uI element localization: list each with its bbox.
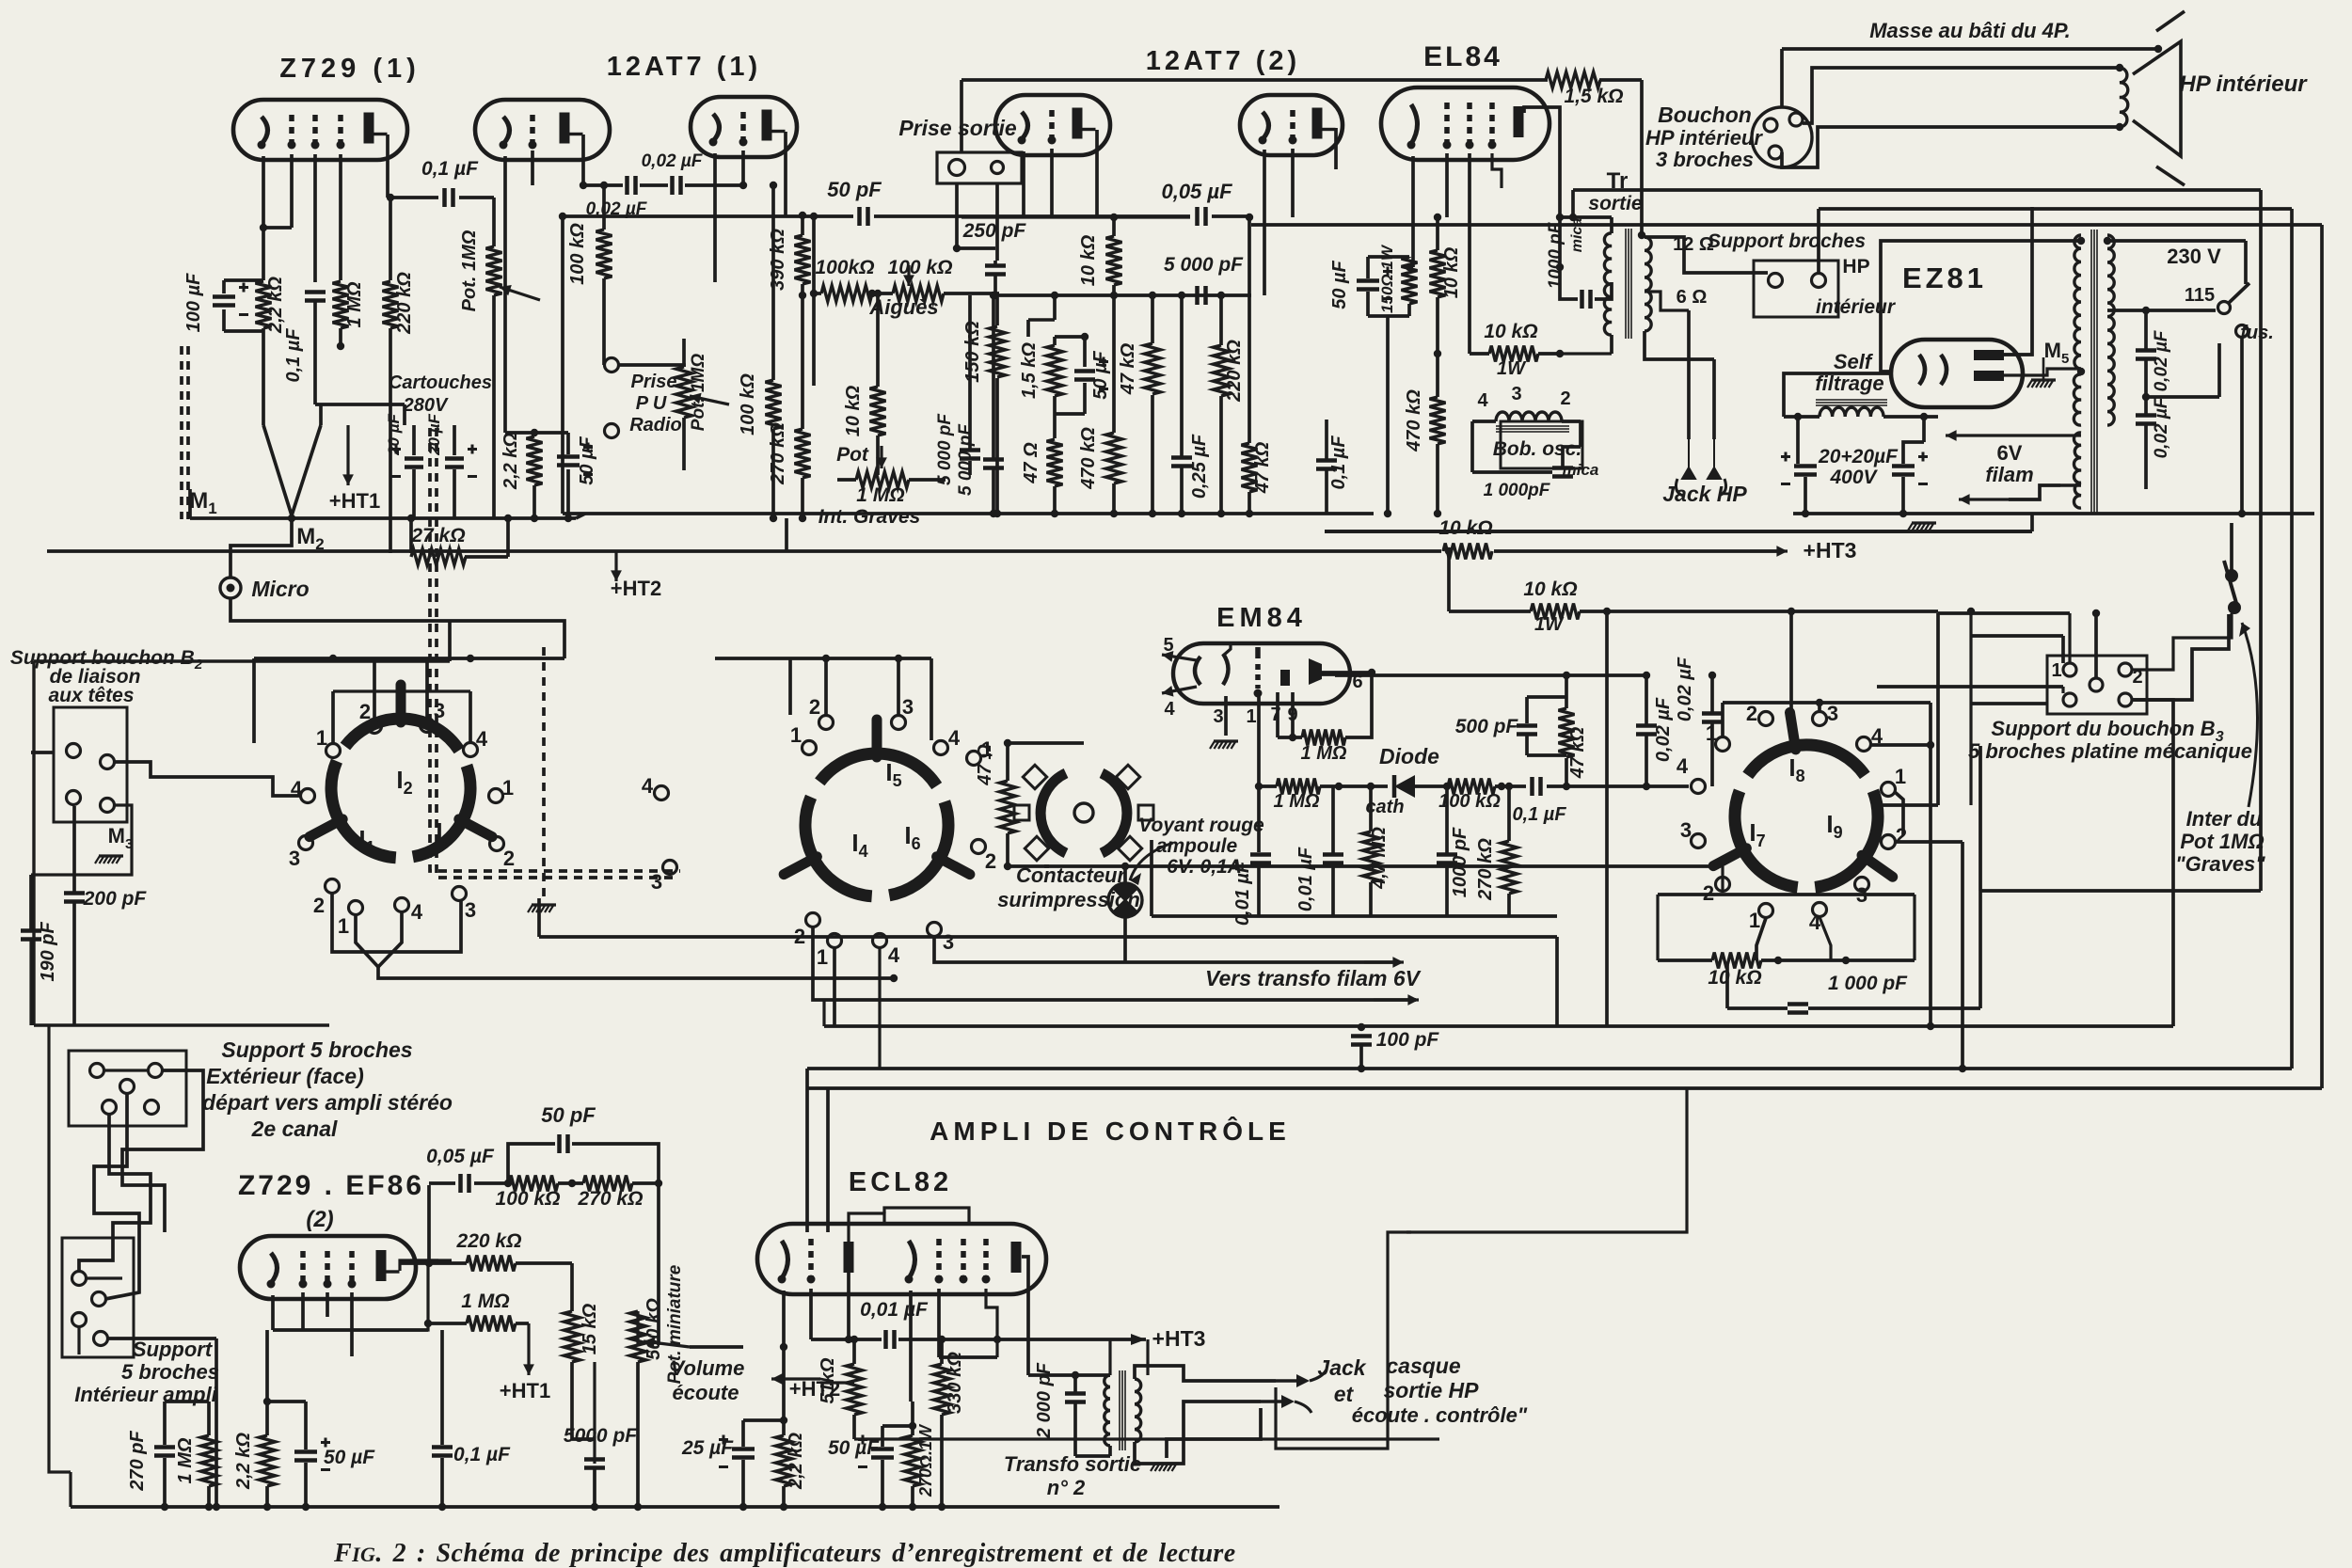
arrow bundle b (1374, 994, 1419, 1006)
wire (1278, 736, 1302, 739)
label Cartouches (389, 372, 492, 393)
label 0.01uF ecl (860, 1299, 929, 1321)
wire (882, 1424, 913, 1428)
wire anode to 220k (388, 196, 390, 199)
svg-text:2: 2 (503, 847, 515, 870)
socket2 pin 3 (663, 861, 677, 875)
label Support bouchon B2 (10, 647, 203, 673)
terminal int a (72, 1272, 87, 1286)
wire (1658, 958, 1712, 962)
junction (531, 515, 538, 522)
resistor 330k (934, 1364, 950, 1415)
label 270k ef86 (578, 1188, 644, 1210)
socket1 pin number 1 (502, 776, 514, 800)
tube label 12AT7 (1) (607, 52, 761, 82)
label 12ohm (1673, 234, 1714, 255)
svg-text:écoute: écoute (673, 1381, 739, 1404)
wire HV loop to EZ81 (1881, 241, 2081, 372)
wire (1555, 937, 1559, 1026)
junction (780, 1417, 787, 1424)
socket2 pin 1 (967, 752, 981, 766)
label 47ohm (1021, 442, 1041, 484)
speaker fold bottom (2156, 166, 2185, 185)
wire speaker bottom (1782, 127, 2120, 167)
svg-text:270 kΩ: 270 kΩ (578, 1188, 644, 1210)
resistor 10k (870, 387, 886, 436)
socket2 pin number 3 (902, 695, 914, 719)
transformer HV secondary (2074, 235, 2081, 369)
svg-text:2: 2 (359, 700, 371, 723)
label Bouchon (1658, 103, 1752, 127)
junction (845, 1336, 852, 1343)
svg-text:+HT1: +HT1 (329, 489, 380, 513)
svg-text:3: 3 (434, 699, 445, 722)
ground M3 (95, 856, 123, 863)
label 0.02uF a (2152, 329, 2171, 391)
potentiometer 100k a (821, 286, 872, 302)
wire (593, 1468, 596, 1507)
label 270pF (127, 1431, 148, 1492)
svg-text:1: 1 (790, 723, 802, 747)
resistor 1M diode (1277, 779, 1320, 795)
wire pin3 up (1818, 703, 1821, 712)
bus power bottom (1793, 512, 2314, 515)
resistor 47k b (1242, 443, 1258, 492)
pot wiper arrow (690, 393, 729, 404)
label Micro (251, 577, 309, 601)
junction (263, 1503, 271, 1511)
junction (1927, 1022, 1934, 1030)
wire (265, 1330, 269, 1435)
wire (1449, 610, 1531, 613)
capacitor 50uF ef86 (294, 1438, 330, 1470)
wire (1687, 310, 1691, 439)
wire bundle a (378, 967, 894, 978)
transfo sortie 2 core (1120, 1370, 1125, 1450)
junction (1217, 292, 1225, 299)
label 50uF ecl (828, 1437, 880, 1459)
svg-text:3: 3 (651, 870, 662, 894)
label 1M ef86 (461, 1291, 509, 1312)
svg-text:P U: P U (636, 393, 667, 414)
svg-text:Extérieur (face): Extérieur (face) (206, 1064, 363, 1088)
label Prise (631, 372, 677, 392)
svg-text:280V: 280V (403, 395, 449, 416)
terminal B3 2 (2119, 663, 2132, 676)
svg-text:2: 2 (985, 849, 996, 873)
potentiometer 1M (486, 246, 502, 295)
label 50uF (1090, 350, 1111, 399)
wire (1112, 285, 1116, 295)
wire (1656, 895, 1659, 960)
label sortie (1588, 193, 1643, 214)
label 100k b (738, 373, 758, 436)
wire top det (1335, 673, 1646, 677)
junction (799, 212, 806, 219)
label 470k EL84 (1404, 389, 1424, 452)
label Aigues (868, 295, 938, 319)
wire 27k right (506, 518, 510, 557)
socket2 pin number 2 (809, 695, 820, 719)
wire B2 to socket (114, 762, 300, 796)
svg-text:5 000 pF: 5 000 pF (956, 423, 976, 496)
junction (780, 1503, 787, 1511)
svg-text:0,1 µF: 0,1 µF (1328, 436, 1349, 490)
ground separator (528, 905, 556, 912)
wire (469, 691, 472, 742)
wire (961, 215, 1190, 218)
potentiometer 100k b (893, 286, 944, 302)
svg-text:écoute . contrôle": écoute . contrôle" (1352, 1403, 1528, 1427)
capacitor 100uF (213, 283, 248, 315)
svg-text:M5: M5 (2044, 339, 2070, 367)
treble pot arrow (903, 265, 914, 286)
wire (1075, 1454, 1110, 1458)
svg-text:Jack HP: Jack HP (1662, 482, 1747, 506)
junction (2142, 307, 2150, 314)
svg-text:47 kΩ: 47 kΩ (1567, 726, 1588, 779)
svg-text:3: 3 (943, 930, 954, 954)
label 0.1uF mid (1328, 436, 1349, 490)
socket3 pin number 2 (1746, 702, 1757, 725)
switch lever (2224, 561, 2236, 603)
junction (559, 213, 566, 220)
junction (161, 1503, 168, 1511)
capacitor 50uF ecl (858, 1435, 894, 1467)
junction (1368, 669, 1375, 676)
wire (1646, 784, 1689, 788)
svg-text:"Graves": "Graves" (2175, 852, 2265, 876)
capacitor 0.02uF a (2136, 351, 2156, 359)
junction (1563, 672, 1570, 679)
junction (1289, 734, 1296, 741)
capacitor 0.1uF ef86 (432, 1448, 453, 1456)
junction (1358, 1023, 1365, 1031)
capacitor 50uF cathode (1074, 357, 1108, 389)
wire (876, 436, 880, 475)
wire (474, 1181, 508, 1185)
svg-text:0,01 µF: 0,01 µF (1295, 847, 1316, 911)
contacteur contact diamond (1116, 765, 1139, 788)
label Support broches (1708, 230, 1866, 252)
svg-text:5 broches: 5 broches (121, 1360, 219, 1384)
wire (72, 903, 76, 1025)
label Support du bouchon B3 (1991, 717, 2223, 745)
junction (938, 1503, 946, 1511)
wire pin4 down (1820, 917, 1831, 960)
Tr sortie core (1626, 229, 1631, 339)
pin 2 (1560, 388, 1570, 409)
arrow +HT3 (1750, 546, 1788, 557)
svg-text:50 µF: 50 µF (577, 436, 597, 484)
wire (1571, 190, 1575, 217)
socket2 pin 4 (934, 741, 948, 755)
arrow +HT2 b (771, 1373, 820, 1385)
svg-text:20+20µF: 20+20µF (1818, 446, 1899, 467)
wire (771, 429, 775, 518)
junction (879, 1503, 886, 1511)
pin c (1769, 146, 1782, 159)
wire 27k left (409, 518, 413, 553)
junction (992, 292, 999, 299)
svg-text:4: 4 (1677, 754, 1689, 778)
junction (1556, 214, 1564, 221)
wire (788, 658, 792, 715)
rail V1 bottom (1980, 889, 2261, 893)
capacitor 0.1uF coupling (445, 188, 453, 207)
svg-text:47 Ω: 47 Ω (975, 744, 995, 786)
wire k row (273, 1328, 428, 1332)
wire (1406, 1088, 1687, 1232)
label 1M (344, 281, 365, 327)
ground M5 (2027, 380, 2056, 388)
svg-text:220 kΩ: 220 kΩ (456, 1230, 522, 1252)
arrow +HT1 (342, 425, 354, 485)
contacteur contact square (1014, 805, 1029, 820)
pin 7 (1270, 705, 1280, 725)
capacitor 2000pF (1065, 1394, 1086, 1402)
wire (426, 1263, 429, 1323)
grid lead (531, 150, 534, 185)
output socket box (937, 152, 1022, 183)
resistor 390k (795, 235, 811, 284)
dashed separator (542, 647, 546, 898)
label 100k right (888, 257, 953, 278)
terminal support b (1812, 274, 1826, 288)
svg-text:Support 5 broches: Support 5 broches (221, 1037, 412, 1062)
wire B3 drop (2171, 708, 2175, 1026)
wire (558, 1181, 583, 1185)
wire 50pF a (508, 1144, 555, 1183)
svg-text:2: 2 (313, 894, 325, 917)
svg-text:1 MΩ: 1 MΩ (175, 1437, 196, 1483)
rail bottom 100pF (824, 1024, 2173, 1028)
junction (205, 1503, 213, 1511)
label Transfo sortie (1004, 1452, 1141, 1476)
speaker coil (2120, 68, 2128, 127)
junction (1051, 292, 1058, 299)
wire (811, 1338, 882, 1341)
capacitor 1000pF osc (1552, 468, 1573, 477)
tube EZ81 (1891, 340, 2023, 407)
bus top feedback (961, 78, 1548, 82)
svg-text:Pot: Pot (836, 444, 869, 466)
wire (1366, 257, 1370, 278)
svg-text:2: 2 (1746, 702, 1757, 725)
junction (634, 1503, 642, 1511)
capacitor 270pF (154, 1448, 175, 1456)
resistor 220k (1214, 345, 1230, 396)
socket3 pin number 2 (1896, 824, 1907, 847)
wire (1407, 304, 1411, 316)
wire (1565, 758, 1568, 786)
wire (583, 183, 623, 187)
capacitor 0.02uF b (2136, 416, 2156, 424)
svg-text:fus.: fus. (2240, 323, 2274, 343)
wire (2144, 425, 2148, 489)
svg-text:270 pF: 270 pF (127, 1431, 148, 1492)
junction (1556, 263, 1564, 271)
wire (390, 196, 438, 199)
resistor 10k 1W (1489, 346, 1538, 362)
svg-text:47 kΩ: 47 kΩ (1118, 342, 1138, 395)
svg-text:330 kΩ: 330 kΩ (945, 1352, 965, 1414)
svg-text:Jack: Jack (1317, 1355, 1366, 1380)
wire (1922, 417, 1926, 442)
wire 230V drop (2244, 241, 2248, 284)
resistor 10k bus (1443, 544, 1492, 560)
wire (207, 1486, 211, 1507)
wire (2061, 687, 2064, 693)
svg-text:Radio: Radio (629, 415, 682, 436)
wire (640, 183, 668, 187)
capacitor 20uF B (1892, 452, 1928, 484)
signal bus (1212, 214, 1251, 218)
wire (1710, 722, 1714, 786)
pin number 4 (1677, 754, 1689, 778)
wire PU to pot (619, 365, 684, 367)
wire (1407, 257, 1411, 258)
wire (1761, 958, 1915, 962)
wire 220k top (389, 198, 392, 280)
junction (1643, 783, 1650, 790)
wire (1969, 636, 1972, 704)
wire (1006, 833, 1009, 866)
wire (593, 1362, 596, 1439)
svg-text:190 pF: 190 pF (38, 922, 58, 982)
label 0.02uF det (1653, 697, 1674, 762)
label 10k (843, 385, 864, 436)
label 2.2k ecl (786, 1433, 806, 1490)
label et (1334, 1382, 1355, 1406)
wire (852, 1339, 856, 1364)
resistor 47k det (1559, 708, 1575, 757)
wire volume to ECL82 (690, 1345, 743, 1349)
wire (995, 183, 999, 261)
terminal 4 (1692, 780, 1706, 794)
junction (990, 292, 997, 299)
wire bouchon up (1780, 49, 1784, 107)
junction (780, 1343, 787, 1351)
svg-text:filam: filam (1985, 463, 2033, 486)
socket2 pin number 2 (985, 849, 996, 873)
label mica (1569, 218, 1585, 253)
svg-text:500 kΩ: 500 kΩ (644, 1298, 664, 1360)
pin b (1789, 113, 1803, 126)
wire long 565 (1325, 530, 2032, 533)
socket1 pin 3 (421, 719, 435, 733)
label 1000pF socket3 (1828, 973, 1908, 994)
switch lever (2229, 283, 2249, 303)
svg-text:1 MΩ: 1 MΩ (1274, 791, 1320, 812)
wire M apex right (292, 425, 321, 515)
wire 220k down (389, 328, 392, 553)
bus M1 line (190, 516, 576, 520)
label 390k (768, 229, 788, 291)
Bob osc core (1496, 426, 1569, 432)
svg-text:3: 3 (902, 695, 914, 719)
svg-text:1,5 kΩ: 1,5 kΩ (1019, 342, 1040, 399)
wire (636, 1362, 640, 1507)
junction (938, 1336, 946, 1343)
rail V1 top feed (1573, 188, 2261, 192)
capacitor 100pF (1351, 1037, 1372, 1045)
junction (739, 182, 747, 189)
junction (504, 1180, 512, 1187)
wire (993, 275, 997, 295)
wire pin1 down (1756, 918, 1766, 960)
wire speaker top (1782, 47, 2158, 51)
rail V1 (2259, 190, 2263, 891)
label 0.1uF diode (1512, 804, 1566, 825)
label +HT2 (611, 577, 661, 600)
wire (911, 1402, 914, 1435)
label 2 (2132, 667, 2142, 688)
socket1 pin number 2 (503, 847, 515, 870)
svg-text:I2: I2 (396, 766, 412, 798)
label 230V (2167, 245, 2221, 268)
label 3 broches (1656, 148, 1754, 171)
socket3 pin 1 (1716, 737, 1730, 752)
svg-text:100 kΩ: 100 kΩ (738, 373, 758, 436)
wire (1345, 673, 1372, 737)
label Pot 1M PU (689, 354, 708, 432)
svg-text:Support: Support (133, 1338, 214, 1361)
svg-text:2e canal: 2e canal (251, 1117, 338, 1141)
rail V2 (2290, 209, 2294, 1069)
wire (2061, 636, 2065, 663)
wire (2217, 343, 2221, 397)
junction (739, 1503, 747, 1511)
terminal B3 4 (2063, 693, 2076, 706)
support B2 outer (34, 661, 450, 1025)
junction (990, 510, 997, 517)
wire (566, 433, 570, 454)
svg-text:150 kΩ: 150 kΩ (962, 321, 983, 383)
junction (1638, 231, 1645, 239)
wire (1073, 1375, 1077, 1393)
junction (2116, 123, 2123, 131)
socket1 pin number 1 (338, 914, 349, 938)
wire (602, 278, 606, 365)
label de liaison (50, 666, 141, 688)
svg-text:47 kΩ: 47 kΩ (1252, 441, 1273, 494)
svg-text:EZ81: EZ81 (1902, 261, 1987, 294)
terminal B2 c (67, 791, 81, 805)
switch contact b (2228, 601, 2241, 614)
svg-text:M2: M2 (296, 524, 324, 553)
grid lead EL84 (1445, 153, 1449, 217)
wire (1979, 746, 1981, 891)
cathode lead EL84 (1411, 156, 1415, 267)
wire (682, 418, 686, 470)
wire long vertical (1605, 611, 1609, 1026)
wire (741, 1460, 745, 1507)
resistor 100k b (766, 380, 782, 429)
wire (69, 1472, 72, 1507)
label 270k det (1475, 838, 1496, 901)
tube label ECL82 (849, 1167, 952, 1197)
junction (1563, 783, 1570, 790)
junction (1569, 214, 1577, 221)
wire supports a (122, 1070, 203, 1232)
wire (31, 805, 132, 875)
label 115 (2185, 285, 2215, 306)
label 1M graves (856, 484, 904, 506)
capacitor 20uF b (445, 445, 477, 477)
svg-text:Int. Graves: Int. Graves (818, 506, 921, 528)
capacitor 0.01uF ecl (886, 1330, 895, 1349)
